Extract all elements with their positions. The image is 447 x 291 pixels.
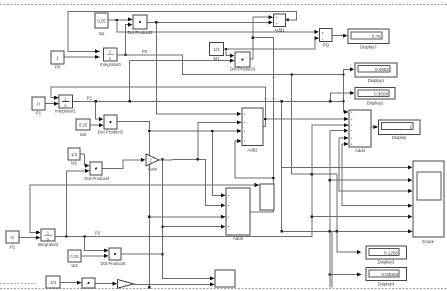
- svg-text:ta2: ta2: [80, 132, 87, 137]
- svg-text:ta3: ta3: [72, 263, 79, 268]
- svg-text:+: +: [351, 129, 353, 133]
- svg-text:Scope: Scope: [422, 239, 435, 244]
- svg-text:Dot Product5: Dot Product5: [98, 130, 124, 135]
- svg-text:0: 0: [37, 102, 40, 107]
- svg-text:+: +: [228, 225, 230, 229]
- svg-text:s: s: [109, 56, 111, 61]
- svg-text:P1: P1: [36, 111, 42, 116]
- svg-text:P2: P2: [95, 231, 101, 236]
- svg-text:+: +: [228, 216, 230, 220]
- svg-text:P1: P1: [87, 96, 93, 101]
- svg-text:s: s: [47, 237, 49, 242]
- svg-text:Dot Product3: Dot Product3: [230, 67, 256, 72]
- svg-text:0.75: 0.75: [372, 34, 381, 39]
- svg-text:Integrator0: Integrator0: [100, 62, 121, 67]
- svg-text:Display3: Display3: [378, 260, 395, 265]
- svg-text:0.3509: 0.3509: [374, 92, 388, 97]
- svg-text:x: x: [322, 30, 324, 35]
- svg-text:+: +: [351, 124, 353, 128]
- svg-text:Integrator1: Integrator1: [55, 109, 76, 114]
- svg-text:+: +: [244, 130, 246, 134]
- svg-text:1: 1: [56, 56, 59, 61]
- svg-text:Add3: Add3: [233, 236, 244, 241]
- svg-text:+: +: [351, 111, 353, 115]
- svg-text:0.1269: 0.1269: [384, 251, 398, 256]
- svg-text:s: s: [64, 103, 66, 108]
- svg-text:PQ: PQ: [323, 43, 330, 48]
- svg-text:+: +: [351, 118, 353, 122]
- svg-text:Dot Product6: Dot Product6: [100, 261, 126, 266]
- svg-text:Add2: Add2: [247, 148, 258, 153]
- svg-text:Integrator2: Integrator2: [38, 242, 59, 247]
- svg-text:Dot Product2: Dot Product2: [127, 30, 153, 35]
- svg-text:Display: Display: [392, 135, 407, 140]
- svg-text:0: 0: [11, 235, 14, 240]
- svg-text:Display2: Display2: [367, 101, 384, 106]
- svg-text:1: 1: [409, 124, 412, 129]
- svg-text:Add1: Add1: [274, 28, 285, 33]
- svg-text:Display7: Display7: [360, 45, 377, 50]
- svg-text:+: +: [228, 194, 230, 198]
- svg-text:0.25: 0.25: [97, 19, 106, 24]
- svg-text:P2: P2: [10, 245, 16, 250]
- svg-text:M2: M2: [71, 161, 78, 166]
- svg-text:+: +: [244, 113, 246, 117]
- svg-text:+: +: [228, 204, 230, 208]
- svg-text:0.4652: 0.4652: [375, 67, 389, 72]
- svg-text:ta1: ta1: [99, 31, 106, 36]
- svg-text:M1: M1: [214, 56, 221, 61]
- svg-text:1/3: 1/3: [214, 47, 221, 52]
- svg-text:P0: P0: [55, 65, 61, 70]
- svg-text:+: +: [351, 143, 353, 147]
- svg-text:1/3: 1/3: [71, 152, 78, 157]
- svg-text:0.25: 0.25: [79, 123, 88, 128]
- svg-text:Display1: Display1: [368, 78, 385, 83]
- svg-text:Add4: Add4: [355, 148, 366, 153]
- svg-text:+: +: [244, 140, 246, 144]
- svg-text:Display4: Display4: [378, 282, 395, 287]
- svg-text:1/3: 1/3: [50, 280, 57, 285]
- svg-text:0.03058: 0.03058: [381, 272, 398, 277]
- svg-text:P0: P0: [142, 49, 148, 54]
- svg-text:Gain: Gain: [148, 167, 158, 172]
- svg-text:+: +: [244, 121, 246, 125]
- svg-text:Dot Product4: Dot Product4: [84, 176, 110, 181]
- svg-text:+: +: [351, 137, 353, 141]
- svg-text:0.25: 0.25: [70, 254, 79, 259]
